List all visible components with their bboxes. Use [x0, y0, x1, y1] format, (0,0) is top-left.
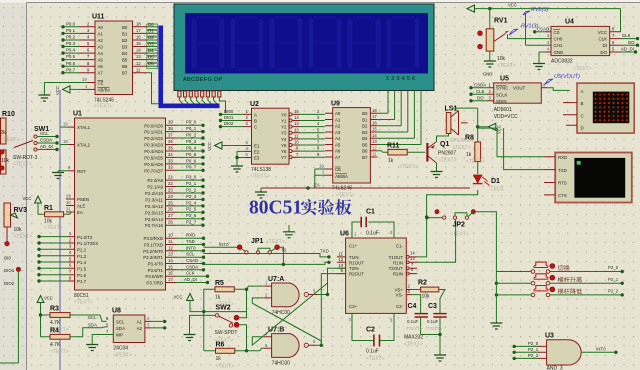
- wire JP2 left pin: [425, 216, 446, 219]
- svg-text:A: A: [254, 112, 257, 117]
- svg-text:R2: R2: [418, 280, 427, 287]
- svg-text:P0_6: P0_6: [186, 158, 197, 163]
- svg-text:R10: R10: [2, 111, 15, 118]
- svg-text:C: C: [581, 113, 584, 118]
- svg-text:U5(VOUT): U5(VOUT): [554, 74, 580, 80]
- IC U9 74LS245: [325, 101, 370, 199]
- svg-text:CLK: CLK: [186, 271, 195, 276]
- svg-text:VCC: VCC: [174, 295, 183, 300]
- svg-text:11: 11: [294, 134, 299, 139]
- push button K2 (横杆升高): [531, 274, 555, 285]
- svg-text:<TEXT>: <TEXT>: [74, 300, 93, 306]
- svg-text:P1.0/T2: P1.0/T2: [77, 235, 93, 240]
- capacitor C2 0.1uF: [349, 313, 395, 362]
- svg-text:D0: D0: [148, 22, 154, 27]
- svg-text:37: 37: [168, 132, 173, 137]
- potentiometer RV3 10k: [4, 203, 32, 246]
- svg-text:ADC0832: ADC0832: [551, 59, 573, 65]
- svg-text:10k: 10k: [14, 227, 23, 233]
- 7-segment display module DISP1 frame: [174, 4, 434, 91]
- wire VCC to R1: [38, 203, 45, 214]
- svg-text:12: 12: [136, 61, 141, 66]
- wire R3 to U8 SCL: [70, 315, 107, 322]
- svg-text:P0_7: P0_7: [186, 165, 197, 170]
- svg-text:CE: CE: [335, 167, 341, 172]
- power VCC (right arrow, speaker node): [478, 123, 502, 134]
- svg-text:1k: 1k: [466, 152, 472, 158]
- svg-text:A3: A3: [335, 130, 341, 135]
- wire T1OUT to D1 node: [417, 190, 478, 257]
- svg-text:P2.4/A12: P2.4/A12: [145, 204, 164, 209]
- svg-text:INT0: INT0: [596, 347, 606, 352]
- svg-text:A0: A0: [98, 25, 104, 30]
- potentiometer RV2 10k (left edge): [0, 150, 10, 174]
- svg-text:11: 11: [339, 252, 344, 257]
- svg-text:P0.6/AD6: P0.6/AD6: [144, 162, 163, 167]
- svg-text:B7: B7: [122, 71, 128, 76]
- U1 EA pin 31 wire to R1: [64, 206, 75, 214]
- wire RV1 top to VCC rail: [489, 9, 491, 29]
- svg-text:ABCDEFG DP: ABCDEFG DP: [183, 77, 222, 83]
- power VCC (SW2 rail): [174, 294, 194, 301]
- svg-text:P0_4: P0_4: [186, 145, 197, 150]
- svg-text:U3: U3: [545, 333, 554, 340]
- svg-text:19: 19: [319, 163, 324, 168]
- svg-text:CSDA: CSDA: [186, 264, 198, 269]
- svg-text:<TEXT>: <TEXT>: [404, 342, 423, 348]
- svg-text:B0: B0: [122, 25, 128, 30]
- bus BUS1 (blue): [159, 26, 220, 106]
- svg-text:<TEXT>: <TEXT>: [452, 145, 471, 151]
- svg-text:P3.3/INT1: P3.3/INT1: [143, 255, 163, 260]
- U11 AB/BA pin 1 to VCC arrow: [70, 84, 95, 90]
- IC U11 74LS245: [92, 14, 133, 110]
- U3 output wire INT0: [582, 347, 618, 354]
- svg-text:CS: CS: [554, 30, 560, 35]
- svg-text:RV1: RV1: [494, 18, 508, 25]
- svg-text:4.7K: 4.7K: [50, 320, 61, 326]
- svg-text:DI02: DI02: [224, 121, 234, 126]
- wire U7:B output to R2OUT: [317, 274, 345, 347]
- svg-text:38: 38: [168, 126, 173, 131]
- svg-text:TXD: TXD: [320, 249, 329, 254]
- svg-text:DO: DO: [477, 95, 484, 100]
- svg-text:CE: CE: [98, 81, 104, 86]
- wire button3 to P2_2: [495, 288, 624, 296]
- svg-text:C2+: C2+: [349, 304, 358, 309]
- U1 PSEN pin 29: [66, 193, 75, 199]
- svg-text:B0: B0: [362, 111, 368, 116]
- svg-text:R11: R11: [387, 143, 400, 150]
- svg-text:Q1: Q1: [440, 141, 449, 148]
- svg-text:T1OUT: T1OUT: [389, 255, 404, 260]
- svg-text:VCC: VCC: [207, 142, 212, 151]
- svg-text:ALE: ALE: [77, 204, 85, 209]
- svg-text:14: 14: [294, 115, 299, 120]
- svg-text:10: 10: [339, 263, 344, 268]
- svg-text:DI: DI: [603, 43, 607, 48]
- U1 ALE pin 30: [66, 200, 75, 206]
- svg-text:39: 39: [168, 120, 173, 125]
- svg-text:P0.4: P0.4: [66, 48, 76, 53]
- ground (U8 WP): [86, 345, 98, 351]
- svg-text:P0_0: P0_0: [186, 120, 197, 125]
- svg-text:<TEXT>: <TEXT>: [113, 353, 132, 359]
- svg-text:T2OUT: T2OUT: [389, 266, 404, 271]
- switch SW1 SW-ROT-3: [13, 126, 49, 168]
- svg-text:CSDA: CSDA: [40, 138, 52, 143]
- terminal pin stubs: [544, 157, 555, 195]
- svg-text:33: 33: [168, 158, 173, 163]
- LED D1: [473, 162, 504, 193]
- svg-text:LS1: LS1: [445, 106, 458, 113]
- svg-text:P3.6/WR: P3.6/WR: [145, 274, 163, 279]
- svg-text:B4: B4: [122, 51, 128, 56]
- LED matrix dot grid: [594, 93, 628, 121]
- svg-text:A4: A4: [98, 51, 104, 56]
- svg-text:U5: U5: [500, 76, 509, 83]
- svg-text:4.7K: 4.7K: [50, 342, 61, 348]
- SW1 contact wires SCL CSDA AD_DI: [37, 131, 59, 151]
- potentiometer RV1 10k: [478, 18, 516, 70]
- U11 left pins P0.0-P0.7: [61, 21, 95, 74]
- svg-text:<TEXT>: <TEXT>: [406, 326, 423, 331]
- IC U5 AD5601: [494, 76, 542, 120]
- svg-text:B3: B3: [362, 130, 368, 135]
- svg-text:RST: RST: [77, 169, 86, 174]
- svg-text:12: 12: [372, 145, 377, 150]
- U1 P1 pins 1-8 wires: [37, 231, 74, 283]
- wire VS- to C4 top: [412, 295, 420, 305]
- svg-text:A5: A5: [335, 143, 341, 148]
- svg-text:R5: R5: [215, 280, 224, 287]
- svg-text:D1: D1: [148, 28, 154, 33]
- svg-text:P2_0: P2_0: [608, 265, 619, 270]
- U6 left pin stubs: [320, 249, 346, 274]
- U1 XTAL1 wire: [60, 122, 75, 128]
- svg-text:<TEXT>: <TEXT>: [426, 326, 443, 331]
- wire C4/C3 bottoms to ground: [421, 333, 442, 355]
- svg-text:A4: A4: [335, 136, 341, 141]
- svg-text:GND: GND: [483, 72, 492, 77]
- svg-text:24: 24: [168, 194, 173, 199]
- svg-text:B1: B1: [362, 118, 368, 123]
- LED matrix display: [577, 83, 634, 133]
- svg-text:U8: U8: [112, 308, 121, 315]
- svg-text:P2.6/A14: P2.6/A14: [145, 217, 164, 222]
- IC U1 80C51: [73, 111, 166, 306]
- U11 right pins B0-B7 to bus labels D0-D6: [133, 21, 159, 103]
- svg-text:D1: D1: [491, 178, 500, 185]
- svg-text:R2IN: R2IN: [393, 272, 403, 277]
- svg-text:P3.4/T0: P3.4/T0: [148, 262, 164, 267]
- svg-text:SCLK: SCLK: [496, 92, 508, 97]
- svg-text:AB/BA: AB/BA: [335, 174, 348, 179]
- svg-text:T1IN: T1IN: [349, 255, 359, 260]
- wire R5 left to rail: [204, 289, 215, 351]
- svg-text:LED3: LED3: [491, 187, 504, 193]
- wire JP1 T0 branch: [280, 247, 287, 264]
- svg-text:P1.3: P1.3: [77, 254, 87, 259]
- AND gate U3 AND_3: [538, 333, 581, 370]
- svg-text:P0.1/AD1: P0.1/AD1: [144, 130, 163, 135]
- U9 CE pin 19 wire: [315, 163, 333, 169]
- wire VCC rail to R3 R4: [39, 303, 50, 337]
- resistor R1 10k: [44, 205, 64, 231]
- svg-text:2k: 2k: [1, 130, 7, 136]
- svg-text:A1: A1: [98, 31, 104, 36]
- svg-text:14: 14: [372, 133, 377, 138]
- capacitor C4 0.1uF: [406, 303, 428, 335]
- svg-text:U11: U11: [92, 14, 105, 21]
- wire TXD vertical: [504, 128, 544, 170]
- svg-text:R1: R1: [44, 205, 53, 212]
- svg-text:VCC: VCC: [508, 3, 517, 8]
- svg-text:18: 18: [136, 21, 141, 26]
- svg-text:P2_2: P2_2: [528, 353, 539, 358]
- svg-text:D4: D4: [148, 48, 154, 53]
- svg-text:17: 17: [168, 277, 173, 282]
- svg-text:E3: E3: [254, 156, 260, 161]
- svg-text:0.1uF: 0.1uF: [366, 231, 379, 237]
- svg-text:D3: D3: [148, 42, 154, 47]
- svg-text:P2_2: P2_2: [186, 187, 197, 192]
- svg-text:P2_7: P2_7: [186, 220, 197, 225]
- svg-text:<TEXT>: <TEXT>: [497, 63, 516, 69]
- svg-text:10k: 10k: [44, 219, 53, 225]
- svg-text:27: 27: [168, 213, 173, 218]
- svg-text:12: 12: [294, 127, 299, 132]
- svg-text:CLK: CLK: [476, 89, 485, 94]
- resistor R2 10k: [418, 280, 439, 300]
- svg-text:SDA: SDA: [88, 322, 97, 327]
- svg-text:24C04: 24C04: [113, 346, 128, 352]
- svg-text:GND: GND: [554, 50, 564, 55]
- svg-text:CSAD: CSAD: [186, 258, 198, 263]
- svg-text:A2: A2: [137, 326, 143, 331]
- svg-text:14: 14: [136, 48, 141, 53]
- svg-text:13: 13: [372, 139, 377, 144]
- capacitor C3 0.1uF: [426, 303, 447, 335]
- svg-text:C1-: C1-: [396, 244, 404, 249]
- svg-text:U2: U2: [250, 101, 259, 108]
- svg-text:U1: U1: [73, 111, 82, 118]
- svg-text:23: 23: [168, 187, 173, 192]
- svg-text:DO: DO: [628, 40, 635, 45]
- wire R11 to Q1 base: [407, 151, 425, 153]
- svg-text:INT0: INT0: [219, 242, 229, 247]
- svg-text:B: B: [254, 119, 257, 124]
- wire net to U6 R1OUT: [204, 261, 331, 267]
- svg-text:Y5: Y5: [281, 143, 287, 148]
- ground (above JP1): [283, 225, 295, 238]
- svg-text:TXD: TXD: [558, 168, 567, 173]
- svg-text:E2: E2: [254, 149, 260, 154]
- svg-text:JP1: JP1: [251, 238, 264, 245]
- svg-text:<TEXT>: <TEXT>: [399, 164, 418, 170]
- svg-text:D6: D6: [148, 61, 154, 66]
- svg-text:VCC: VCC: [598, 30, 607, 35]
- wire VCC to rail: [190, 301, 247, 314]
- svg-text:P0.1: P0.1: [66, 28, 76, 33]
- svg-text:AND_3: AND_3: [547, 366, 563, 370]
- svg-text:12: 12: [339, 257, 344, 262]
- svg-text:XTAL2: XTAL2: [77, 143, 91, 148]
- U2 E1 wire to VCC arrow: [222, 140, 252, 146]
- svg-text:RTS: RTS: [558, 181, 567, 186]
- svg-text:CLK: CLK: [598, 37, 607, 42]
- svg-text:31: 31: [66, 206, 71, 211]
- svg-text:32: 32: [168, 165, 173, 170]
- svg-text:CH0: CH0: [554, 37, 563, 42]
- svg-text:11: 11: [136, 67, 141, 72]
- svg-text:XTAL1: XTAL1: [77, 125, 91, 130]
- svg-text:19: 19: [82, 77, 87, 82]
- svg-text:SCL: SCL: [186, 252, 195, 257]
- svg-text:<TEXT>: <TEXT>: [1, 137, 20, 143]
- svg-text:P2_3: P2_3: [186, 194, 197, 199]
- svg-text:VCC: VCC: [23, 196, 32, 201]
- svg-text:B2: B2: [362, 124, 368, 129]
- svg-text:13: 13: [294, 121, 299, 126]
- svg-text:16: 16: [136, 35, 141, 40]
- power VCC (left arrow, U2 E1): [207, 142, 222, 151]
- jumper JP2: [435, 210, 476, 238]
- wire RXD to R8 node: [478, 128, 544, 157]
- U4 CH1 wire up to RV2 net: [526, 14, 552, 45]
- U1 P2 pins right wires: [166, 175, 205, 227]
- svg-text:D5: D5: [148, 55, 154, 60]
- svg-text:D: D: [581, 126, 584, 131]
- resistor R6 1k: [216, 342, 235, 370]
- svg-text:R8: R8: [465, 135, 474, 142]
- svg-text:B: B: [581, 101, 584, 106]
- power VCC (R1): [23, 196, 42, 203]
- svg-text:RV3: RV3: [14, 207, 28, 214]
- svg-text:CLK: CLK: [622, 33, 631, 38]
- svg-text:B6: B6: [362, 149, 368, 154]
- svg-text:B4: B4: [362, 136, 368, 141]
- svg-text:36: 36: [168, 139, 173, 144]
- svg-text:SW-ROT-3: SW-ROT-3: [13, 155, 38, 161]
- wire VCC rail top right: [475, 7, 621, 32]
- svg-text:P0.6: P0.6: [66, 61, 76, 66]
- resistor R4 4.7K: [50, 328, 70, 356]
- svg-text:10k: 10k: [497, 56, 506, 62]
- svg-text:<TEXT>: <TEXT>: [216, 364, 235, 370]
- svg-text:SDIN: SDIN: [496, 99, 507, 104]
- ground (buttons): [490, 323, 502, 329]
- U8 right pins A1 A2: [145, 316, 167, 330]
- svg-text:<TEXT>: <TEXT>: [94, 104, 113, 110]
- ground (U11 CE): [38, 95, 50, 101]
- svg-text:RV2(3): RV2(3): [531, 7, 548, 13]
- wire JP2 right to buttons rail: [468, 212, 496, 272]
- svg-text:17: 17: [372, 114, 377, 119]
- svg-text:P1.5: P1.5: [77, 266, 87, 271]
- wire R4 to U8 SDA: [70, 322, 107, 337]
- svg-text:P2_1: P2_1: [186, 181, 197, 186]
- svg-text:PSEN: PSEN: [77, 197, 89, 202]
- U11 CE pin 19 wire to ground: [44, 77, 95, 95]
- U9 B0-B5 output wires to display digits: [370, 108, 421, 145]
- wire net to U6 T1IN: [204, 254, 331, 259]
- svg-text:C2-: C2-: [396, 304, 404, 309]
- svg-text:SCL: SCL: [88, 315, 97, 320]
- svg-text:P0.2/AD2: P0.2/AD2: [144, 136, 163, 141]
- svg-text:SCL: SCL: [116, 319, 125, 324]
- svg-text:74LS138: 74LS138: [251, 167, 271, 173]
- U9 AB/BA pin 1 wire down to EA node: [315, 169, 333, 188]
- svg-text:<TEXT>: <TEXT>: [466, 159, 485, 165]
- svg-text:<TEXT>: <TEXT>: [266, 239, 285, 245]
- svg-text:1k: 1k: [215, 295, 221, 301]
- svg-text:U6: U6: [340, 231, 349, 238]
- svg-text:Y1: Y1: [281, 119, 287, 124]
- svg-text:DO: DO: [600, 50, 607, 55]
- svg-text:12: 12: [168, 245, 173, 250]
- svg-text:10k: 10k: [422, 294, 431, 300]
- svg-text:P3.5/T1: P3.5/T1: [148, 268, 164, 273]
- svg-text:15: 15: [168, 264, 173, 269]
- svg-text:DIO1: DIO1: [4, 268, 15, 273]
- wire RV1 bottom to ground: [489, 51, 491, 60]
- svg-text:SW2: SW2: [216, 305, 231, 312]
- U1 XTAL2 wire: [60, 139, 75, 145]
- svg-text:1k: 1k: [216, 356, 222, 362]
- svg-text:VOUT: VOUT: [513, 86, 526, 91]
- svg-text:VDD=VCC: VDD=VCC: [494, 114, 518, 120]
- ground (U2 E2/E3): [231, 166, 243, 172]
- svg-text:P0.7: P0.7: [66, 67, 76, 72]
- NAND gate U7:A 74HC00: [264, 276, 318, 316]
- svg-text:123456: 123456: [386, 76, 417, 82]
- svg-text:Y6: Y6: [281, 149, 287, 154]
- svg-text:A7: A7: [335, 155, 341, 160]
- wire SW2 upper throw to R5 node: [239, 291, 247, 318]
- ground (SW2): [184, 335, 196, 341]
- Q1 collector wire to ground: [431, 163, 443, 178]
- svg-text:P2.1/A9: P2.1/A9: [147, 185, 163, 190]
- svg-text:P3.7/RD: P3.7/RD: [146, 281, 163, 286]
- power VCC (top right rail, left arrow): [467, 3, 517, 13]
- svg-text:C: C: [254, 125, 257, 130]
- svg-text:A6: A6: [335, 149, 341, 154]
- svg-text:DI01: DI01: [224, 115, 234, 120]
- virtual terminal: [555, 153, 632, 203]
- svg-text:15: 15: [372, 127, 377, 132]
- svg-text:RXD: RXD: [186, 233, 195, 238]
- Q1 emitter wire to speaker: [437, 134, 449, 142]
- IC U4 ADC0832: [551, 19, 610, 73]
- svg-text:WP: WP: [116, 332, 123, 337]
- U2 E2 E3 wires to ground: [235, 146, 251, 166]
- svg-text:11: 11: [372, 152, 377, 157]
- svg-text:A7: A7: [98, 71, 104, 76]
- ground (RV1): [483, 61, 496, 77]
- svg-text:B5: B5: [122, 58, 128, 63]
- value label MAX232: [404, 335, 423, 348]
- svg-text:R1IN: R1IN: [393, 260, 403, 265]
- jumper JP1: [237, 238, 284, 254]
- svg-text:<TEXT>: <TEXT>: [44, 225, 63, 231]
- U2 input wires DI00 DI01 DI02: [219, 109, 252, 128]
- svg-text:C1: C1: [366, 209, 375, 216]
- ground (MAX232 C3/C4): [434, 355, 446, 361]
- svg-text:P2.7/A15: P2.7/A15: [145, 223, 164, 228]
- svg-text:A0: A0: [335, 111, 341, 116]
- wire R2 right to C3 top: [439, 290, 445, 305]
